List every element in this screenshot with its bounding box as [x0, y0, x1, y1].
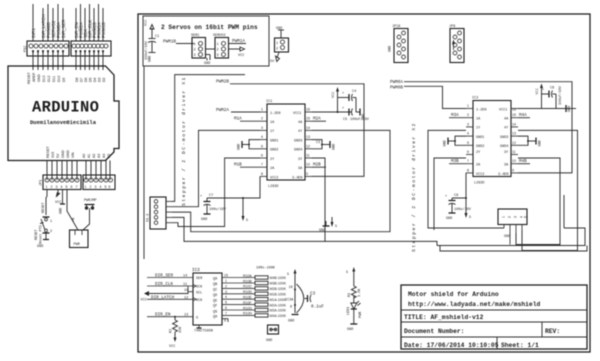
supply VCC left arrow: [141, 291, 189, 303]
svg-text:PWM1B: PWM1B: [163, 40, 176, 45]
svg-text:2: 2: [276, 48, 278, 52]
svg-text:13: 13: [184, 314, 188, 318]
svg-text:3V3: 3V3: [51, 152, 55, 158]
svg-text:VCC: VCC: [141, 299, 147, 303]
svg-text:6: 6: [467, 150, 469, 154]
svg-text:R10G: R10G: [243, 306, 252, 310]
wire bottom right bus: [437, 228, 585, 246]
jumper EXT-PWR sense: [270, 27, 289, 64]
svg-text:QG: QG: [213, 310, 217, 314]
connector X2 terminal: [498, 209, 528, 245]
svg-text:GND: GND: [389, 46, 393, 52]
svg-text:C7: C7: [209, 194, 213, 198]
svg-text:2: 2: [508, 216, 512, 218]
svg-text:GND: GND: [288, 320, 294, 324]
svg-text:DuemilanoveØiecimila: DuemilanoveØiecimila: [30, 119, 97, 126]
svg-text:9: 9: [512, 168, 514, 172]
svg-text:DIR_LATCH: DIR_LATCH: [151, 295, 175, 300]
svg-text:11: 11: [512, 150, 516, 154]
capacitor C1: [144, 20, 159, 62]
svg-text:6: 6: [71, 185, 73, 189]
svg-text:2: 2: [225, 284, 227, 288]
svg-text:R2: R2: [170, 329, 174, 333]
svg-text:A3: A3: [97, 154, 101, 158]
svg-text:LED1: LED1: [347, 307, 351, 315]
svg-text:IC3: IC3: [192, 268, 200, 273]
svg-text:QE: QE: [213, 299, 217, 303]
svg-text:6: 6: [225, 306, 227, 310]
svg-text:8: 8: [290, 306, 292, 310]
wire VCC rail left: [143, 66, 145, 259]
op IC3A power gate: [285, 269, 304, 313]
svg-text:2: 2: [467, 113, 469, 117]
wire reset: [46, 190, 47, 216]
svg-text:3-4EN: 3-4EN: [498, 173, 509, 177]
connector SER1: [191, 34, 206, 58]
svg-text:100uF/16V: 100uF/16V: [558, 85, 563, 105]
svg-text:3: 3: [261, 126, 263, 130]
svg-text:7: 7: [467, 159, 469, 163]
svg-text:9: 9: [224, 320, 226, 324]
resistor R1 and LED column: [346, 267, 363, 332]
svg-text:+: +: [445, 195, 447, 199]
svg-text:RESET: RESET: [46, 145, 50, 158]
svg-text:Date: 17/06/2014 10:10:05: Date: 17/06/2014 10:10:05: [404, 342, 499, 349]
svg-text:VIN: VIN: [71, 152, 75, 158]
wire X2 box edge: [563, 195, 565, 228]
svg-text:14: 14: [183, 275, 187, 279]
svg-text:DIR_CLK: DIR_CLK: [155, 282, 173, 287]
svg-text:8: 8: [261, 172, 263, 176]
capacitor C3: [305, 292, 325, 310]
svg-text:D10: D10: [57, 76, 61, 82]
svg-text:1: 1: [467, 104, 469, 108]
ground IC2 right: [518, 136, 543, 146]
wire 1Y to term: [172, 130, 260, 206]
svg-text:11: 11: [183, 283, 187, 287]
connector P$2 top header: [23, 41, 111, 56]
svg-text:GND: GND: [266, 339, 272, 343]
svg-text:4: 4: [225, 295, 227, 299]
svg-text:R10D: R10D: [243, 290, 252, 294]
svg-text:D7: D7: [80, 77, 84, 82]
svg-text:10: 10: [512, 159, 516, 163]
svg-text:L293D: L293D: [268, 185, 279, 189]
svg-text:GND3: GND3: [294, 140, 302, 144]
svg-text:13: 13: [512, 132, 516, 136]
ground IC1 right: [312, 140, 337, 150]
supply VCC IC1: [312, 87, 352, 113]
svg-text:C3: C3: [310, 292, 316, 297]
svg-text:100u/16V: 100u/16V: [454, 207, 472, 212]
svg-text:+M: +M: [73, 218, 77, 222]
svg-text:IC3A: IC3A: [285, 299, 294, 303]
svg-text:R1: R1: [348, 293, 352, 297]
ground IC2 left: [444, 136, 467, 146]
op IC1 L293D body: [266, 100, 305, 189]
svg-text:Motor shield for Arduino: Motor shield for Arduino: [408, 291, 499, 298]
resistor network 10Rx 100K: [243, 267, 287, 319]
svg-text:Sheet: 1/1: Sheet: 1/1: [501, 342, 539, 349]
svg-text:A5: A5: [107, 154, 111, 158]
svg-text:R10B: R10B: [243, 279, 252, 283]
svg-text:3: 3: [514, 216, 518, 218]
capacitor C6: [542, 85, 564, 108]
arduino board outline: [8, 66, 119, 161]
IC3 pin 8 gnd: [198, 325, 200, 328]
svg-text:ARDUINO: ARDUINO: [32, 99, 99, 117]
svg-text:GND3: GND3: [500, 136, 508, 140]
svg-text:DIR1: DIR1: [31, 28, 36, 38]
svg-text:GND: GND: [149, 56, 153, 62]
svg-text:5: 5: [524, 216, 528, 218]
ground IC2 vcc cap: [564, 108, 576, 110]
svg-text:GND: GND: [362, 114, 366, 120]
svg-text:11: 11: [306, 154, 310, 158]
svg-text:10: 10: [306, 163, 310, 167]
svg-text:GND: GND: [60, 208, 64, 214]
switch S1 RESET: [35, 217, 52, 249]
svg-text:AREF: AREF: [32, 73, 36, 82]
svg-text:GND: GND: [446, 217, 452, 221]
svg-text:100uF/16V: 100uF/16V: [350, 117, 370, 122]
ground: [62, 190, 64, 205]
supply +M arrow down: [242, 197, 249, 223]
supply VCC arrow: [57, 190, 59, 195]
ground mid: [319, 217, 337, 233]
svg-text:PWM2A: PWM2A: [216, 108, 229, 113]
wire PWM0B to 3-4EN: [404, 82, 572, 173]
svg-text:12: 12: [512, 141, 516, 145]
jumper pad JP2: [266, 325, 279, 343]
svg-text:0.1uF: 0.1uF: [311, 305, 324, 310]
svg-text:DIR_EN: DIR_EN: [155, 313, 171, 318]
svg-text:1: 1: [276, 42, 278, 46]
svg-text:GND: GND: [444, 140, 448, 146]
svg-text:74HCT595N: 74HCT595N: [194, 330, 213, 334]
svg-text:2: 2: [51, 185, 53, 189]
svg-text:5: 5: [66, 185, 68, 189]
svg-text:2: 2: [261, 117, 263, 121]
svg-text:1: 1: [46, 185, 48, 189]
svg-text:D9: D9: [62, 77, 66, 82]
svg-text:VCC: VCC: [332, 92, 336, 98]
svg-text:1: 1: [225, 279, 227, 283]
svg-text:GND: GND: [347, 328, 353, 332]
wires board to bottom header: [47, 161, 110, 181]
capacitor C8: [445, 173, 472, 221]
svg-text:R10E: R10E: [243, 296, 252, 300]
svg-text:SER: SER: [196, 277, 203, 281]
wires header to board: [33, 50, 103, 70]
connector X1 terminal: [147, 197, 173, 229]
svg-text:C5: C5: [343, 118, 347, 122]
svg-text:10Rx-100K: 10Rx-100K: [256, 267, 276, 271]
servo section box: [143, 16, 269, 66]
IC1 pin stubs + numbers: [260, 112, 312, 176]
jumper PWRJMP: [83, 199, 97, 230]
IC2 pin stubs + numbers: [466, 109, 518, 173]
svg-text:A4: A4: [102, 154, 106, 158]
svg-text:D4: D4: [93, 77, 97, 82]
svg-text:Document Number:: Document Number:: [404, 328, 464, 335]
svg-text:3: 3: [95, 185, 97, 189]
IC3 pin stubs left: [147, 278, 193, 317]
wire PWM2B to 3-4EN: [230, 84, 364, 177]
svg-text:GND: GND: [539, 140, 543, 146]
svg-text:RESET: RESET: [42, 202, 46, 213]
svg-text:+: +: [542, 89, 544, 93]
svg-text:L293D: L293D: [474, 182, 485, 186]
wire 1Y X2: [428, 130, 504, 228]
svg-text:QF: QF: [213, 305, 217, 309]
capacitor C5: [342, 107, 370, 122]
svg-text:+: +: [342, 92, 344, 96]
svg-text:IC1: IC1: [266, 100, 272, 104]
node labels top: [31, 14, 106, 38]
svg-text:5: 5: [346, 271, 348, 275]
svg-text:GND: GND: [66, 150, 70, 158]
svg-text:PWR: PWR: [74, 243, 81, 247]
svg-text:R10C: R10C: [243, 285, 252, 289]
svg-text:PWM2B: PWM2B: [216, 80, 229, 85]
svg-text:TITLE: AF_mshield-v12: TITLE: AF_mshield-v12: [404, 314, 484, 321]
svg-text:M1B-100K: M1B-100K: [270, 293, 287, 297]
svg-text:1-2EN: 1-2EN: [476, 109, 487, 113]
svg-text:6: 6: [261, 154, 263, 158]
ground IC1 left: [238, 140, 261, 150]
svg-text:GND: GND: [333, 144, 337, 150]
svg-text:A0: A0: [82, 154, 86, 158]
svg-text:RESET: RESET: [27, 71, 31, 84]
svg-text:4: 4: [467, 132, 469, 136]
svg-text:QH: QH: [213, 316, 217, 320]
wire bottom right bus 2: [440, 246, 587, 252]
svg-text:16: 16: [289, 286, 293, 290]
svg-text:GND: GND: [204, 62, 210, 66]
svg-text:M2B-100K: M2B-100K: [270, 287, 287, 291]
svg-text:GND: GND: [568, 106, 572, 112]
svg-text:GND4: GND4: [294, 149, 302, 153]
svg-text:PWM0B: PWM0B: [390, 86, 403, 91]
svg-text:100u/16V: 100u/16V: [209, 207, 227, 212]
svg-text:D11: D11: [52, 76, 56, 82]
IC3 right pin numbers: [224, 274, 228, 316]
svg-text:16: 16: [512, 108, 516, 112]
svg-text:Reset PTS: Reset PTS: [40, 225, 44, 244]
ground IC1 vcc cap: [356, 111, 360, 113]
svg-text:VCC: VCC: [145, 20, 149, 26]
svg-text:R10H: R10H: [243, 312, 252, 316]
svg-text:3: 3: [194, 54, 196, 58]
svg-text:PWM0A: PWM0A: [390, 80, 403, 85]
svg-text:7: 7: [76, 185, 78, 189]
svg-text:6: 6: [109, 185, 111, 189]
svg-text:GND: GND: [37, 74, 41, 82]
svg-text:14: 14: [512, 122, 516, 126]
wire bottom lane: [325, 241, 437, 245]
svg-text:VCC1: VCC1: [293, 112, 301, 116]
svg-text:4: 4: [100, 185, 102, 189]
svg-text:Stepper / 2 DC-motor driver X1: Stepper / 2 DC-motor driver X1: [181, 76, 187, 206]
op IC2 L293D body: [472, 97, 511, 186]
wire servo link: [206, 48, 216, 50]
svg-text:12: 12: [184, 296, 188, 300]
connector JP8: [449, 25, 464, 63]
svg-text:M4A-100K: M4A-100K: [270, 314, 287, 318]
svg-text:10: 10: [184, 289, 188, 293]
svg-text:M3A-100K: M3A-100K: [270, 309, 287, 313]
svg-text:M2A-100K: M2A-100K: [270, 303, 287, 307]
arduino pin labels bottom row: [46, 145, 111, 158]
wire VIN: [67, 190, 78, 231]
supply VCC IC2: [518, 84, 566, 109]
capacitor C7: [200, 176, 260, 222]
svg-text:R10A: R10A: [243, 274, 252, 278]
svg-text:GND: GND: [61, 150, 65, 158]
svg-text:GND: GND: [238, 144, 242, 150]
wire 2Y to term: [172, 158, 260, 227]
wire 4Y loop: [172, 130, 390, 231]
svg-text:A2: A2: [92, 154, 96, 158]
svg-text:GND: GND: [319, 229, 325, 233]
LED LED1: [351, 303, 357, 309]
connector SERVO2: [213, 34, 229, 58]
svg-text:VCC1: VCC1: [499, 109, 507, 113]
svg-text:1: 1: [217, 43, 219, 47]
connector EXT_PWR: [70, 230, 89, 248]
svg-text:GND2: GND2: [270, 149, 278, 153]
svg-text:VCC2: VCC2: [476, 173, 484, 177]
svg-text:REV:: REV:: [545, 328, 560, 335]
svg-text:4: 4: [261, 135, 263, 139]
svg-text:http://www.ladyada.net/make/ms: http://www.ladyada.net/make/mshield: [408, 301, 540, 308]
op IC3 74HCT595N body: [192, 268, 222, 334]
supply +M arrow down right: [465, 197, 472, 220]
wire 3Y X2: [516, 158, 560, 245]
svg-text:RCK: RCK: [196, 299, 203, 303]
IC3 output stubs: [222, 278, 255, 316]
svg-text:15: 15: [224, 274, 228, 278]
svg-text:1: 1: [261, 108, 263, 112]
svg-text:16: 16: [306, 108, 310, 112]
svg-text:1-2EN: 1-2EN: [270, 112, 281, 116]
wire: [176, 43, 194, 45]
svg-text:D6: D6: [84, 77, 88, 82]
svg-text:2: 2: [90, 185, 92, 189]
svg-text:DIR_SER: DIR_SER: [155, 274, 173, 279]
svg-text:C4: C4: [352, 90, 356, 94]
svg-text:13: 13: [306, 135, 310, 139]
svg-text:15: 15: [306, 117, 310, 121]
top header wires to arduino: [33, 4, 103, 41]
svg-text:PWR: PWR: [359, 311, 363, 318]
svg-text:14: 14: [306, 126, 310, 130]
svg-text:+: +: [200, 195, 202, 199]
title block: [401, 285, 587, 349]
wire PWM0A to 1-2EN: [404, 86, 466, 108]
svg-text:D8: D8: [75, 77, 79, 82]
capacitor C4: [338, 90, 357, 112]
svg-text:PWM1B: PWM1B: [101, 22, 106, 38]
svg-text:SCL: SCL: [196, 292, 202, 296]
svg-text:5: 5: [225, 301, 227, 305]
svg-text:5: 5: [287, 273, 289, 277]
svg-text:R10F: R10F: [243, 301, 252, 305]
svg-text:1: 1: [85, 185, 87, 189]
svg-text:A1: A1: [87, 154, 91, 158]
svg-text:5: 5: [246, 219, 248, 223]
svg-text:3: 3: [56, 185, 58, 189]
svg-text:2: 2: [217, 49, 219, 53]
svg-text:3-4EN: 3-4EN: [292, 177, 303, 181]
svg-text:G: G: [196, 317, 198, 321]
svg-text:5: 5: [335, 225, 337, 229]
supply VCC arrow: [229, 48, 241, 50]
svg-text:GND4: GND4: [500, 145, 508, 149]
svg-text:PWRJMP: PWRJMP: [84, 199, 97, 203]
wire 3Y loop: [172, 158, 325, 241]
svg-text:5: 5: [467, 141, 469, 145]
svg-text:C1: C1: [155, 35, 159, 39]
svg-text:1.0K: 1.0K: [358, 288, 362, 297]
svg-text:GND1: GND1: [270, 140, 278, 144]
arduino pin labels top row: [27, 71, 106, 84]
svg-text:4: 4: [61, 185, 63, 189]
svg-text:D12: D12: [47, 76, 51, 82]
svg-text:1: 1: [502, 216, 506, 218]
svg-text:VCC: VCC: [169, 345, 175, 349]
svg-text:+: +: [342, 107, 344, 111]
svg-text:1: 1: [50, 220, 52, 224]
svg-text:8: 8: [467, 168, 469, 172]
svg-text:Stepper / 2 DC-motor driver X2: Stepper / 2 DC-motor driver X2: [411, 122, 417, 252]
svg-text:3: 3: [225, 290, 227, 294]
svg-text:PWM1A: PWM1A: [232, 39, 245, 44]
svg-text:C2: C2: [316, 141, 320, 145]
svg-text:VCC: VCC: [536, 88, 540, 94]
svg-text:M4B-100K: M4B-100K: [270, 276, 287, 280]
svg-text:D2: D2: [102, 77, 106, 82]
svg-text:10K: 10K: [179, 326, 183, 333]
svg-text:15: 15: [512, 113, 516, 117]
svg-text:2 Servos on 16bit PWM pins: 2 Servos on 16bit PWM pins: [161, 24, 258, 31]
svg-text:IC2: IC2: [472, 97, 478, 101]
svg-text:C8: C8: [454, 194, 458, 198]
wire 2Y X2: [434, 158, 466, 230]
svg-text:GND: GND: [37, 245, 43, 249]
svg-text:QD: QD: [213, 294, 217, 298]
svg-text:1: 1: [194, 43, 196, 47]
wire PWM2A to 1-2EN: [231, 111, 260, 113]
svg-text:SCK: SCK: [196, 286, 203, 290]
svg-text:3: 3: [467, 122, 469, 126]
svg-text:D13: D13: [42, 76, 46, 82]
svg-text:GND: GND: [201, 218, 207, 222]
svg-text:5: 5: [261, 144, 263, 148]
wire PWM1A: [229, 43, 247, 45]
svg-text:5: 5: [105, 185, 107, 189]
svg-text:VCC: VCC: [238, 54, 244, 58]
svg-text:D5: D5: [89, 77, 93, 82]
svg-text:RESET: RESET: [35, 229, 39, 240]
svg-text:QB: QB: [213, 283, 217, 287]
wire 4Y X2: [518, 130, 578, 250]
svg-text:12: 12: [306, 144, 310, 148]
svg-text:5: 5: [469, 216, 471, 220]
svg-text:GND: GND: [504, 235, 510, 239]
wire term GND up: [172, 75, 245, 202]
